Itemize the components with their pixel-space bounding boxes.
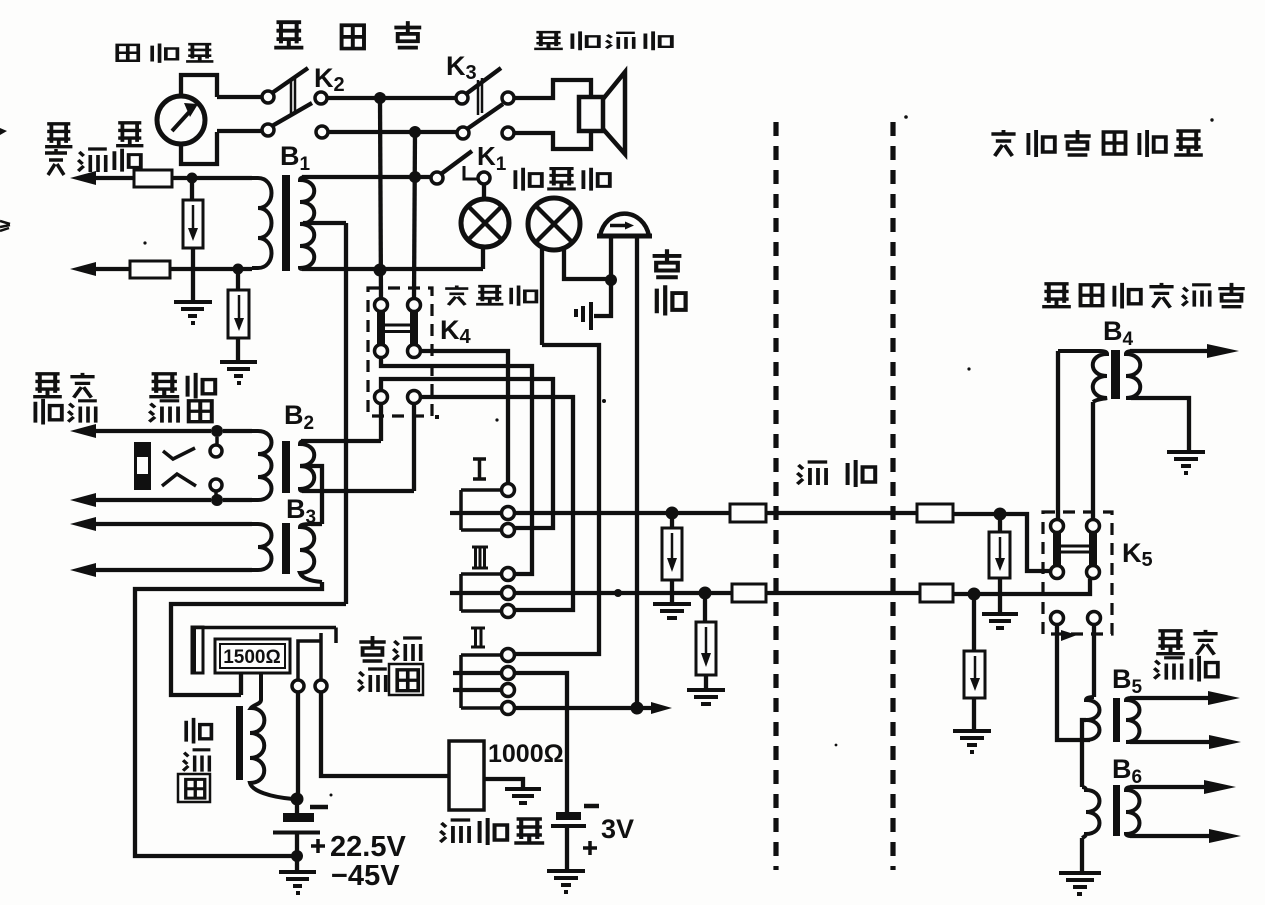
wire line2 to K5 — [953, 579, 1090, 594]
ground G-3V — [547, 871, 585, 892]
resistor R-right1 — [989, 520, 1010, 613]
line F arrow — [95, 568, 252, 572]
wire vertical x414 down to K4 — [414, 132, 415, 299]
wire group II c2 stub — [453, 671, 501, 675]
node line1 junction — [374, 92, 386, 104]
arrow on K5 box bottom — [1061, 630, 1077, 641]
node B — [233, 264, 244, 275]
switch K3 — [456, 68, 514, 139]
drop-coil contact bridge — [298, 633, 321, 680]
battery 3V — [551, 806, 599, 869]
wire B4 left bottom down to K5 — [1091, 402, 1095, 520]
switch K4 contacts top row — [375, 299, 388, 312]
wire B6 right top arrow — [1130, 785, 1222, 789]
switch K5 coupling bar — [1061, 546, 1089, 552]
resistor R-right2 — [964, 600, 985, 730]
wire K4 bot-right down to B2 bottom — [412, 403, 416, 491]
node line1 right junction — [994, 508, 1007, 521]
svg-text:B1: B1 — [280, 141, 311, 175]
contact group I bracket — [461, 490, 501, 530]
wire B1 bottom to lamp1 — [302, 267, 483, 271]
label rural-branch-end 农村支局所端 — [991, 130, 1202, 157]
node battery top junction — [291, 793, 304, 806]
svg-text:1500Ω: 1500Ω — [223, 647, 281, 668]
label indicator-lamp 指示灯 — [515, 168, 609, 191]
svg-text:B5: B5 — [1112, 664, 1143, 698]
separator dashed line right — [890, 122, 895, 870]
fuse A — [134, 170, 172, 187]
bell 警铃 — [594, 214, 652, 708]
switch K5 blades — [1057, 532, 1093, 566]
wire group III mid stub — [450, 591, 501, 595]
transformer B4 right winding — [1126, 351, 1140, 398]
transformer B6 core — [1113, 785, 1120, 836]
label load-lamp 负荷灯 — [445, 286, 536, 306]
svg-text:K1: K1 — [477, 141, 507, 175]
wire B1-tap vertical x346 — [344, 223, 348, 604]
wire B2 top tap to K4 — [301, 439, 381, 443]
wire K4 bot-left up to group I bottom — [381, 379, 553, 528]
transformer B2 core — [282, 441, 290, 493]
label to-county-broadcast 至县广播站 — [45, 123, 143, 175]
node bell leg / c4 — [631, 702, 644, 715]
wire B3 bottom tap long route to battery — [135, 582, 322, 856]
node A — [187, 173, 198, 184]
separator dashed line left — [773, 122, 778, 870]
drop-tag hook wire — [192, 628, 336, 644]
drop-coil 1500 ohm box — [215, 639, 290, 673]
lamp indicator — [528, 198, 607, 345]
label monitor-speaker 监听喇叭 — [534, 31, 672, 50]
voltmeter M — [157, 75, 217, 164]
jack prong bottom — [162, 474, 216, 497]
wire line2 K2 to K3 — [328, 130, 457, 134]
resistor R-line2-mid — [696, 599, 716, 689]
wire B6 bottom to ground — [1080, 838, 1084, 871]
node battery bottom junction — [291, 850, 303, 862]
wire K4 mid-right to group I top — [420, 351, 508, 484]
ground G-right1 — [982, 614, 1018, 628]
ground sideways under bell — [576, 302, 591, 330]
wire K4 bot-left down to B2 tap — [379, 403, 383, 441]
line B arrow — [95, 267, 130, 271]
svg-text:K2: K2 — [314, 63, 345, 96]
jack prong top — [163, 437, 217, 459]
contact group II bracket — [461, 655, 501, 708]
node line1 resistor junction — [666, 507, 679, 520]
svg-text:22.5V: 22.5V — [330, 831, 406, 863]
svg-text:1000Ω: 1000Ω — [488, 740, 564, 768]
wire contact1 down to battery — [296, 692, 300, 799]
switch K4 coupling bar — [385, 325, 411, 332]
choke core bar — [236, 706, 243, 780]
resistor R-line1-mid — [662, 519, 682, 603]
wire group II c3 stub — [453, 688, 501, 692]
drop-coil contact circles — [292, 680, 304, 692]
wire B6 right bottom arrow — [1130, 834, 1226, 838]
svg-text:−45V: −45V — [331, 860, 400, 892]
wire K5 lower-right to B5 top — [1092, 625, 1096, 697]
node lamp2-bell junction — [605, 274, 617, 286]
node line2 resistor junction — [699, 587, 712, 600]
scan specks — [143, 115, 1213, 796]
transformer B5 core — [1113, 698, 1120, 742]
transformer B5 left winding — [1086, 697, 1100, 740]
scan smudge left edge 1 — [0, 128, 7, 135]
ground G-line2-mid — [687, 690, 725, 704]
transformer B1 core — [282, 175, 290, 271]
switch K5 contacts mid row — [1051, 566, 1064, 579]
wire fuse A to B1 — [172, 176, 252, 180]
wire B5 tap to B6 — [1082, 720, 1086, 787]
wire line2 to right — [515, 591, 732, 595]
node D — [211, 494, 223, 506]
lamp load-lamp — [461, 184, 509, 269]
wire B5 right bottom arrow — [1130, 740, 1225, 744]
wire line1 to K5 — [953, 514, 1051, 571]
label county-office-end 县局端 — [274, 21, 421, 48]
line A arrow — [95, 176, 134, 180]
resistor RA — [183, 183, 203, 301]
label choke 扼流圈 — [178, 718, 211, 802]
wire B2 center tap to B3 — [300, 466, 322, 524]
label drop-coil 吊牌线圈 — [358, 636, 423, 695]
wire group II c2 to 3V battery — [515, 673, 567, 812]
wire D to B2 — [223, 498, 252, 502]
ground G-B4 — [1167, 452, 1205, 473]
node B1-bottom x381 — [374, 264, 387, 277]
wire relay to ground — [484, 779, 523, 788]
switch K2 — [262, 68, 328, 138]
wire K4 bot-right to group III bottom — [420, 397, 573, 610]
svg-text:K5: K5 — [1122, 538, 1153, 571]
node C — [211, 425, 223, 437]
battery 22.5V — [273, 805, 328, 871]
relay box — [449, 741, 484, 810]
wire B4 right bottom to ground — [1131, 398, 1189, 451]
wire B3 top tap — [311, 522, 322, 526]
wire B2 bottom tap to K4 — [302, 489, 414, 493]
scan smudge left edge 2 — [0, 221, 10, 231]
label alarm-bell 警铃 — [653, 249, 686, 315]
label relay 继电器 — [440, 818, 544, 845]
contact group II circles — [502, 649, 515, 662]
contact group III bracket — [461, 574, 501, 611]
wire fuse B to B1 — [170, 267, 252, 271]
transformer B2 right winding — [300, 441, 314, 491]
speaker — [514, 72, 625, 154]
transformer B2 left winding — [252, 431, 272, 500]
wire group II c4 to arrow — [515, 706, 655, 710]
fuse line1 left — [730, 504, 766, 522]
line D arrow — [95, 498, 211, 502]
wire B4 right top arrow — [1130, 349, 1225, 353]
line E arrow — [95, 522, 252, 526]
ground GB — [220, 362, 257, 383]
node line2 right junction — [968, 588, 981, 601]
wire line1 K2 to K3 — [327, 96, 456, 100]
drop-coil 1500 ohm box terminal left — [239, 673, 243, 695]
node line2 junction — [409, 126, 421, 138]
wire line2 middle — [766, 591, 920, 595]
drop-tag bar — [192, 627, 203, 673]
jack plug body — [134, 442, 151, 490]
label to-user-broadcast 至用户广播线 — [1042, 283, 1245, 309]
wire group II c1 to lamp2 — [515, 345, 599, 654]
transformer B3 core — [282, 523, 290, 574]
wire voltmeter to K2 top — [217, 95, 262, 99]
ground G-B6 — [1059, 873, 1101, 894]
wire group I mid stub — [450, 511, 501, 515]
node line2 small — [614, 589, 622, 597]
svg-text:B6: B6 — [1112, 754, 1142, 788]
wire voltmeter to K2 bottom — [217, 129, 262, 133]
wire C to B2 — [223, 429, 252, 433]
ground G-line1-mid — [653, 604, 691, 618]
contact group II label — [471, 628, 485, 647]
switch K5 contacts bottom row — [1051, 612, 1064, 625]
wire contact2 down to relay — [321, 692, 449, 776]
label to-exchange 至交换机 — [33, 373, 97, 425]
switch K4 dashed box — [368, 288, 432, 416]
fuse B — [130, 261, 170, 278]
fuse line1 right — [917, 504, 953, 522]
wire K4 mid-left to group III top — [381, 357, 532, 574]
switch K4 contacts bottom row — [375, 391, 388, 404]
ground G-battery — [279, 872, 316, 893]
contact group I label — [473, 459, 486, 479]
ground G-relay — [505, 789, 541, 803]
resistor RB — [228, 274, 249, 361]
transformer B6 right winding — [1126, 787, 1140, 836]
switch K1 — [302, 151, 490, 184]
switch K5 contacts top row — [1051, 520, 1064, 533]
transformer B4 core — [1111, 350, 1120, 399]
svg-text:3V: 3V — [601, 814, 634, 844]
label to-exchange-right 至交换机 — [1154, 630, 1218, 682]
svg-text:K4: K4 — [440, 315, 472, 348]
switch K4 blades — [381, 311, 414, 346]
small dot right of K4 box bottom — [435, 415, 439, 419]
contact group III label — [472, 547, 488, 568]
label voltmeter 电压表 — [117, 43, 213, 62]
wire vertical x381 down to K4 — [380, 98, 381, 299]
transformer B3 right winding — [300, 524, 322, 582]
contact group I circles — [502, 484, 515, 497]
svg-text:K3: K3 — [446, 51, 477, 84]
ground GA — [174, 302, 212, 323]
contact group III circles — [502, 568, 515, 581]
label monitor-jack 监听插孔 — [149, 373, 215, 423]
switch K4 contacts middle row — [375, 345, 388, 358]
transformer B5 right winding — [1126, 698, 1140, 742]
ground G-right2 — [953, 731, 991, 752]
wire B1 center tap — [303, 221, 346, 225]
choke coil — [250, 673, 293, 799]
transformer B3 left winding — [252, 524, 272, 570]
wire K5 lower-left to B5 bottom — [1057, 625, 1090, 740]
wire B5 right top arrow — [1130, 696, 1225, 700]
transformer B6 left winding — [1082, 787, 1100, 838]
transformer B1 left winding — [252, 178, 272, 268]
drop-coil top wire from B1 tap — [171, 604, 346, 695]
transformer B4 left winding — [1058, 351, 1107, 402]
wire line1 to right — [515, 511, 730, 515]
wire line1 middle — [766, 511, 917, 515]
svg-text:B2: B2 — [284, 400, 314, 434]
fuse line2 right — [920, 584, 953, 602]
line C arrow — [95, 429, 211, 433]
svg-text:B4: B4 — [1103, 316, 1134, 350]
fuse line2 left — [732, 584, 766, 602]
transformer B1 right winding — [300, 177, 314, 269]
wire B4 left top down to K5 — [1056, 351, 1060, 520]
switch K5 dashed box — [1043, 512, 1112, 634]
label line 线路 — [797, 460, 875, 487]
